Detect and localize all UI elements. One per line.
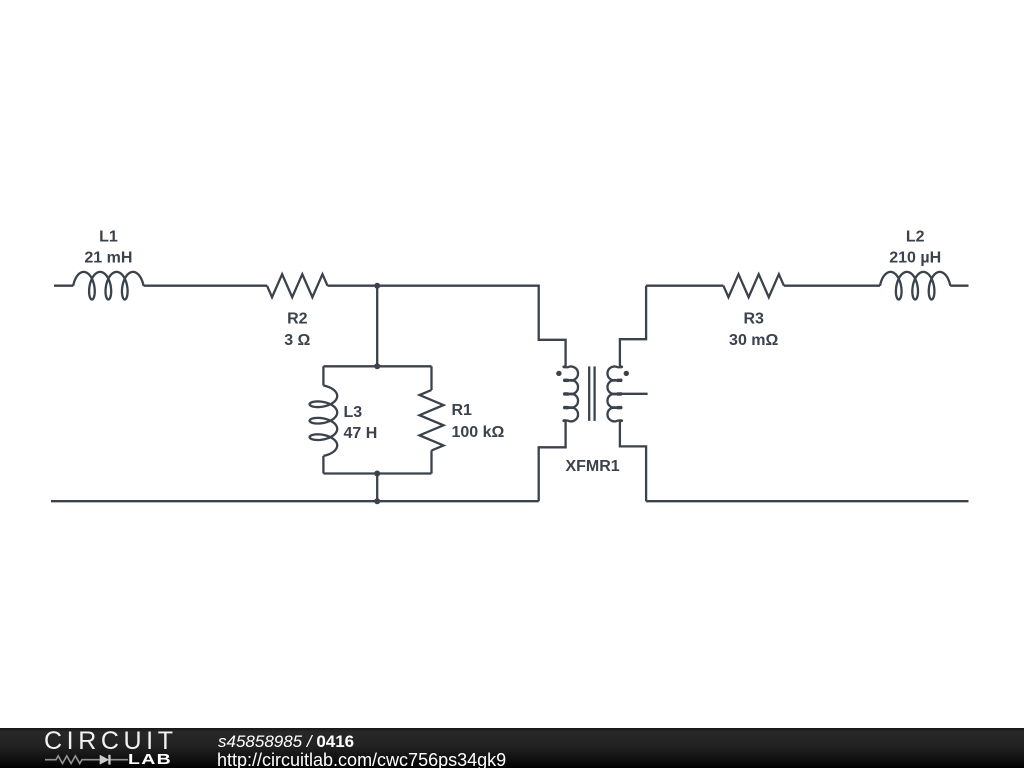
svg-text:XFMR1: XFMR1 [565,458,619,475]
svg-text:3 Ω: 3 Ω [284,332,310,349]
svg-text:R2: R2 [287,311,308,328]
svg-text:R1: R1 [452,402,473,419]
svg-text:L1: L1 [99,229,118,246]
svg-text:100 kΩ: 100 kΩ [452,424,505,441]
svg-text:L3: L3 [344,404,363,421]
svg-text:210 µH: 210 µH [889,250,941,267]
svg-text:21 mH: 21 mH [84,250,132,267]
svg-text:L2: L2 [906,229,925,246]
svg-text:47 H: 47 H [344,425,378,442]
svg-text:30 mΩ: 30 mΩ [729,332,778,349]
svg-text:R3: R3 [743,311,764,328]
